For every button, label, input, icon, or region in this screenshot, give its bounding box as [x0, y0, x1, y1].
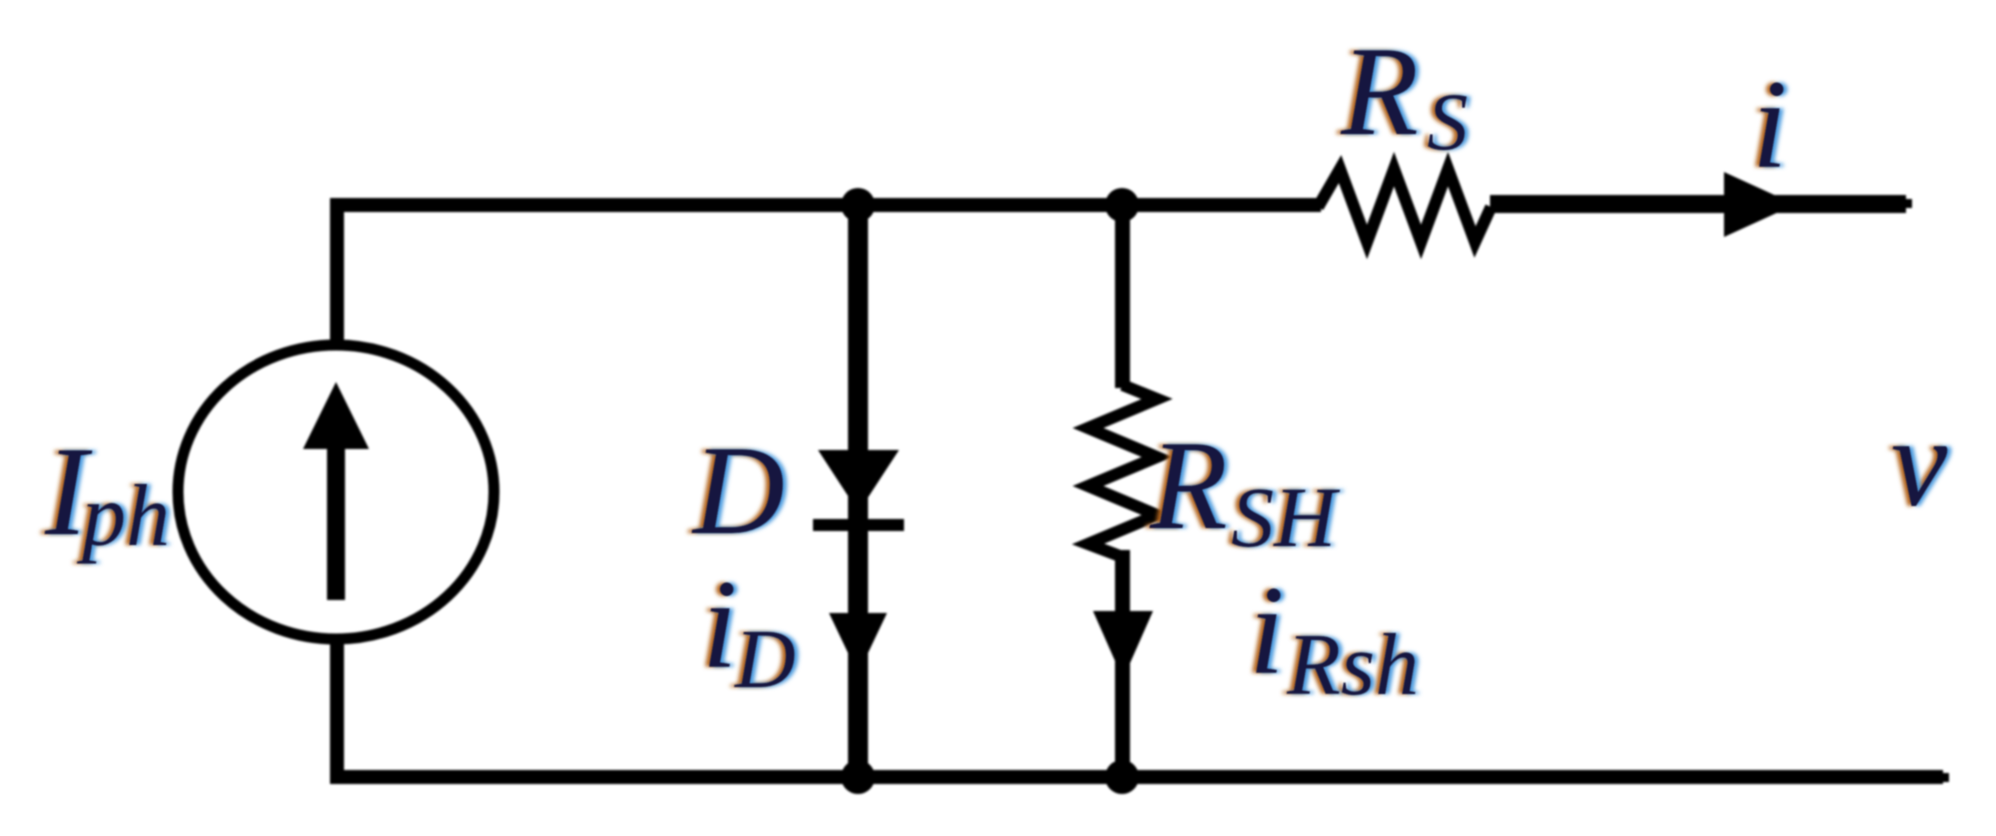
wire top-right horizontal [1490, 195, 1906, 213]
current arrow i head (output) [1724, 172, 1795, 237]
label Iph [40, 422, 174, 565]
wire Rsh branch vertical upper [1115, 198, 1130, 388]
wire bottom horizontal [330, 770, 1943, 784]
node junction dot bottom diode [841, 760, 875, 794]
svg-text:SH: SH [1231, 469, 1340, 565]
wire diode branch vertical [848, 198, 868, 777]
resistor RSH zigzag [1088, 385, 1157, 557]
current source U1 circle [178, 345, 494, 639]
svg-text:v: v [1891, 393, 1948, 533]
wire bottom right end nub [1943, 773, 1949, 782]
wire top-right end nub [1906, 199, 1912, 208]
svg-text:D: D [734, 613, 796, 706]
label RSH [1145, 416, 1344, 565]
svg-text:R: R [1340, 22, 1419, 162]
label i output [1748, 55, 1791, 195]
svg-text:ph: ph [76, 468, 170, 565]
label v output voltage [1887, 393, 1952, 533]
current source arrow shaft [327, 440, 345, 600]
label RS [1336, 22, 1472, 167]
label iRsh [1245, 561, 1423, 714]
wire left vertical lower [330, 636, 344, 777]
diode D cathode bar [813, 519, 904, 531]
svg-text:Rsh: Rsh [1286, 617, 1419, 714]
label D [687, 421, 789, 561]
svg-text:S: S [1427, 76, 1468, 167]
node junction dot bottom Rsh [1105, 760, 1139, 794]
current source arrow head [303, 382, 369, 449]
svg-text:D: D [691, 421, 785, 561]
svg-text:i: i [1752, 55, 1787, 195]
node junction dot top diode [841, 188, 875, 222]
label iD [698, 555, 800, 706]
resistor RS zigzag [1318, 169, 1491, 242]
diode D triangle [818, 450, 899, 512]
wire top-left horizontal [330, 198, 1321, 212]
node junction dot top Rsh [1105, 188, 1139, 222]
current arrow iD head [829, 613, 887, 674]
svg-text:R: R [1149, 416, 1228, 556]
wire Rsh branch vertical lower [1115, 550, 1130, 777]
wire left vertical upper [330, 198, 344, 348]
current arrow iRsh head [1093, 611, 1153, 679]
svg-text:i: i [1249, 561, 1284, 701]
